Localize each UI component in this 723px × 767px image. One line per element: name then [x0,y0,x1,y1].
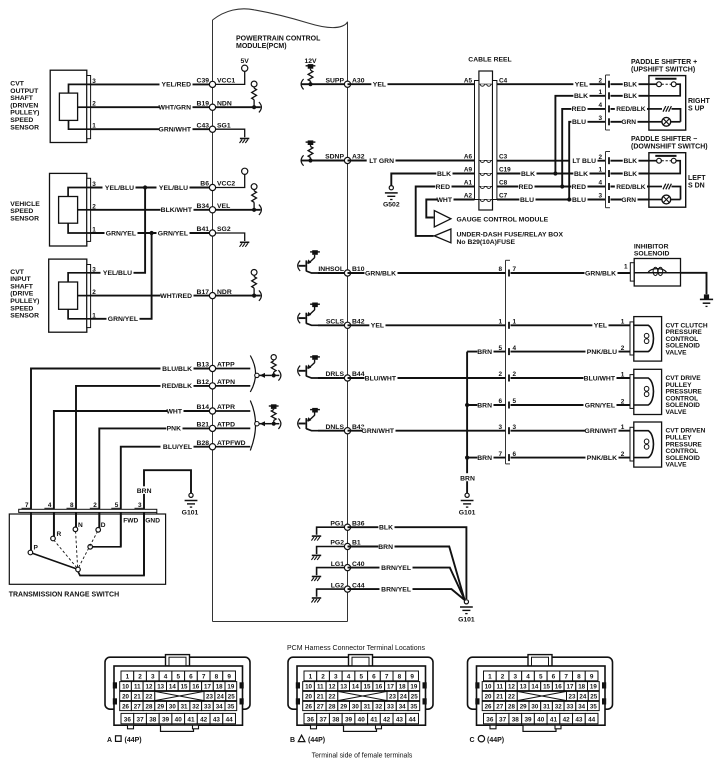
svg-text:18: 18 [216,684,223,691]
svg-text:B34: B34 [197,203,210,210]
wire switch pin8 to N contact [75,512,77,527]
pin B13/ATPP [197,362,236,372]
wire GRN/BLK B10 to connector pin8 [348,269,506,278]
label INHIBITOR SOLENOID [634,243,670,257]
pin numbers 2|2 inline connector [498,371,516,378]
svg-text:G101: G101 [458,617,475,624]
ground PG1 inside PCM [311,527,347,540]
svg-text:VALVE: VALVE [666,350,688,357]
svg-text:37: 37 [137,717,145,724]
svg-text:2: 2 [321,674,325,681]
svg-text:43: 43 [575,717,583,724]
svg-text:DNLS: DNLS [325,424,344,431]
svg-text:30: 30 [169,704,176,711]
wire GRN/YEL VSS pin1 to B41 [91,229,213,238]
ground for inhibitor solenoid [700,294,713,306]
svg-text:B: B [290,737,295,744]
pin numbers 3|3 inline connector [498,424,516,431]
wire RED cable reel C8 to downshift pin4 with branch to upshift pin4 [497,105,606,191]
svg-text:BLK: BLK [623,158,637,165]
svg-text:33: 33 [567,704,574,711]
svg-text:7: 7 [202,674,206,681]
labels FWD GND [123,518,160,525]
svg-text:DRLS: DRLS [325,371,344,378]
wire YEL/BLU bus VSS to input sensor pin3 [91,185,148,277]
svg-text:38: 38 [512,717,520,724]
svg-text:12: 12 [508,684,515,691]
svg-text:GRN: GRN [621,119,636,126]
svg-text:VALVE: VALVE [666,462,688,469]
svg-text:29: 29 [157,704,164,711]
svg-text:TRANSMISSION RANGE SWITCH: TRANSMISSION RANGE SWITCH [9,592,119,599]
svg-text:15: 15 [543,684,550,691]
pin numbers 1|1 inline connector [498,319,516,326]
dashed ray pivot to N [76,532,78,568]
svg-text:20: 20 [122,694,129,701]
driver transistor DNLS [298,408,348,431]
svg-text:PG1: PG1 [330,520,344,527]
svg-text:44: 44 [588,717,596,724]
svg-text:GRN/BLK: GRN/BLK [365,270,396,277]
svg-text:16: 16 [555,684,562,691]
sense node ATPP/ATPN with pull-up [255,355,281,381]
svg-text:BRN/YEL: BRN/YEL [381,586,411,593]
svg-text:LT BLU: LT BLU [572,158,596,165]
svg-text:RED/BLK: RED/BLK [162,383,192,390]
svg-text:RED: RED [572,106,586,113]
svg-text:3: 3 [598,193,602,200]
svg-text:VEHICLE: VEHICLE [10,201,40,208]
svg-text:YEL/RED: YEL/RED [162,82,192,89]
inhibitor solenoid [624,259,681,287]
svg-text:YEL: YEL [575,82,588,89]
svg-text:B6: B6 [200,181,209,188]
wire GND to rotor return [78,512,144,576]
svg-text:42: 42 [563,717,571,724]
svg-text:33: 33 [204,704,211,711]
svg-text:GRN/WHT: GRN/WHT [362,428,395,435]
svg-text:1: 1 [598,167,602,174]
svg-text:ATPFWD: ATPFWD [217,440,246,447]
svg-text:BRN: BRN [477,349,492,356]
svg-text:34: 34 [399,704,406,711]
5V supply terminal for VCC2 [213,168,248,187]
svg-text:4: 4 [526,674,530,681]
wire switch pin5 to FWD contact [92,512,120,547]
svg-text:37: 37 [499,717,507,724]
svg-text:11: 11 [134,684,141,691]
svg-text:SCLS: SCLS [326,319,345,326]
wire BLK/WHT VSS pin2 to B34 [91,206,213,215]
svg-text:BLU/WHT: BLU/WHT [584,375,616,382]
svg-text:B28: B28 [197,440,210,447]
svg-text:39: 39 [162,717,170,724]
wire PNK B21 to switch pin2 [99,424,212,530]
sense node ATPR/ATPD/ATPFWD with pull-up to battery [255,404,281,429]
sensor CVT input shaft speed sensor [49,259,97,332]
svg-text:27: 27 [496,704,503,711]
svg-text:RIGHT: RIGHT [688,98,711,105]
svg-text:BLK: BLK [574,93,588,100]
svg-text:43: 43 [213,717,221,724]
svg-text:YEL: YEL [371,323,384,330]
sensor CVT output shaft speed sensor [50,70,96,142]
svg-text:1: 1 [621,319,625,326]
ground SG1 [213,129,250,143]
label CVT INPUT SHAFT (DRIVE PULLEY) SPEED SENSOR [10,269,39,320]
contact D [96,522,106,532]
svg-text:39: 39 [345,717,353,724]
wire YEL connector to CVT clutch solenoid pin1 [511,321,631,330]
svg-text:VALVE: VALVE [666,409,688,416]
svg-text:22: 22 [146,694,153,701]
pin DRLS/B44 [325,371,364,381]
pivot contact [76,567,81,572]
svg-text:A1: A1 [464,180,473,187]
ground SG2 [213,233,250,247]
svg-text:B17: B17 [197,289,210,296]
wire BRN/YEL C40 to G101 [348,563,465,600]
wire YEL cable reel C4 to upshift pin2 [497,80,606,89]
ground LG1 inside PCM [311,568,347,581]
paddle shifter + (upshift switch) [598,59,710,130]
svg-text:25: 25 [228,694,235,701]
svg-text:CVT: CVT [10,269,24,276]
svg-text:PNK/BLK: PNK/BLK [587,455,617,462]
svg-text:10: 10 [305,684,312,691]
wire BLU cable reel C7 to downshift pin3 with branch to upshift pin3 [497,118,606,204]
svg-text:38: 38 [149,717,157,724]
svg-text:16: 16 [192,684,199,691]
label CVT drive pulley pressure control solenoid valve [666,375,703,416]
svg-text:OUTPUT: OUTPUT [10,88,39,95]
svg-text:19: 19 [227,684,234,691]
svg-text:19: 19 [590,684,597,691]
svg-text:2: 2 [138,674,142,681]
CVT clutch pressure control solenoid valve [621,317,662,362]
contact P [28,545,38,555]
svg-text:GRN/YEL: GRN/YEL [108,316,138,323]
svg-text:WHT/RED: WHT/RED [160,293,192,300]
wire GRN/WHT connector to CVT driven solenoid pin1 [511,427,631,436]
svg-text:R: R [57,531,62,538]
svg-text:YEL: YEL [594,323,607,330]
svg-text:29: 29 [520,704,527,711]
ground G101 at transmission range switch [182,493,199,516]
svg-text:ATPN: ATPN [217,379,235,386]
svg-text:33: 33 [387,704,394,711]
svg-text:UNDER-DASH FUSE/RELAY BOX: UNDER-DASH FUSE/RELAY BOX [457,231,564,238]
svg-text:WHT/GRN: WHT/GRN [159,105,192,112]
svg-text:25: 25 [590,694,597,701]
sensor vehicle speed sensor [50,173,97,246]
label VEHICLE SPEED SENSOR [10,201,40,223]
svg-text:B13: B13 [197,362,210,369]
svg-text:20: 20 [485,694,492,701]
svg-text:INHSOL: INHSOL [318,266,344,273]
svg-text:23: 23 [569,694,576,701]
svg-text:35: 35 [227,704,234,711]
svg-text:SPEED: SPEED [10,117,33,124]
svg-text:(DOWNSHIFT SWITCH): (DOWNSHIFT SWITCH) [631,144,708,151]
svg-text:21: 21 [134,694,141,701]
svg-text:34: 34 [578,704,585,711]
svg-text:SENSOR: SENSOR [10,215,39,222]
wire BLU/YEL B28 to switch pin5 [121,443,213,547]
svg-text:RED: RED [519,184,533,191]
PCM connector A (44P) terminal view [105,655,250,732]
svg-text:13: 13 [157,684,164,691]
svg-text:27: 27 [134,704,141,711]
wire LT GRN SDNP to cable reel A6 [348,156,475,165]
svg-text:9: 9 [590,674,594,681]
pin numbers 8|7 inline connector [498,266,516,273]
pull-up resistor on VEL [213,184,262,215]
svg-text:SHAFT: SHAFT [10,283,34,290]
ground G101 for BRN bus [459,493,476,516]
pin B17/NDR [197,289,232,299]
svg-text:23: 23 [206,694,213,701]
svg-text:8: 8 [398,674,402,681]
svg-text:ATPD: ATPD [217,422,235,429]
svg-text:36: 36 [124,717,132,724]
ground G502 [383,186,400,209]
svg-text:9: 9 [227,674,231,681]
svg-text:INPUT: INPUT [10,276,31,283]
svg-text:27: 27 [317,704,324,711]
contact FWD ring [88,545,93,550]
svg-text:1: 1 [309,674,313,681]
svg-text:24: 24 [217,694,224,701]
wire BLK B36 to G101 [348,523,467,599]
pin C39/VCC1 [197,78,236,88]
svg-text:1: 1 [621,424,625,431]
label CABLE REEL [468,57,511,64]
svg-text:44: 44 [409,717,417,724]
svg-text:C: C [470,737,475,744]
wire GRN/YEL connector to CVT drive solenoid pin2 [511,401,631,410]
svg-text:37: 37 [320,717,328,724]
svg-text:BLU: BLU [520,197,534,204]
svg-text:GAUGE CONTROL MODULE: GAUGE CONTROL MODULE [457,217,549,224]
svg-text:2: 2 [501,674,505,681]
wire stub ATPR [213,410,251,412]
svg-text:(44P): (44P) [125,737,142,744]
contact N [73,522,83,532]
svg-text:29: 29 [340,704,347,711]
wire BRN B1 to G101 [348,542,465,599]
wire BRN switch pin3 to G101 [137,470,191,575]
svg-text:11: 11 [317,684,324,691]
svg-text:A5: A5 [464,77,473,84]
12V pull-up on SUPP [301,58,347,90]
svg-text:41: 41 [187,717,195,724]
svg-text:PULLEY): PULLEY) [10,110,39,117]
svg-text:CVT: CVT [10,81,24,88]
wire RED cable reel A1 to under-dash fuse box [416,182,475,236]
svg-text:CABLE REEL: CABLE REEL [468,57,511,64]
paddle shifter - (downshift switch) [598,136,707,208]
wire BLU/WHT B44 to connector pin2 [348,374,506,383]
svg-text:26: 26 [485,704,492,711]
svg-text:RED/BLK: RED/BLK [616,106,646,113]
label CVT driven pulley pressure control solenoid valve [666,428,706,469]
svg-text:BLU/BLK: BLU/BLK [162,366,192,373]
svg-text:10: 10 [122,684,129,691]
label C (44P) [470,736,505,744]
svg-text:NDN: NDN [217,100,232,107]
wire BLK cable reel C19 to downshift pin1 with branch to upshift pin1 [497,92,606,178]
pin B14/ATPR [197,404,236,414]
svg-text:RED/BLK: RED/BLK [616,184,646,191]
PCM connector C (44P) terminal view [468,655,613,732]
pin C43/SG1 [197,122,231,132]
pin B19/NDN [197,100,232,110]
svg-text:SENSOR: SENSOR [10,124,39,131]
svg-text:1: 1 [598,89,602,96]
svg-text:YEL: YEL [373,82,386,89]
svg-text:44: 44 [226,717,234,724]
svg-text:WHT: WHT [167,408,183,415]
driver transistor SCLS [298,303,348,326]
svg-text:4: 4 [347,674,351,681]
range switch pin numbers [22,502,145,509]
svg-text:(UPSHIFT SWITCH): (UPSHIFT SWITCH) [631,67,695,74]
svg-text:ATPR: ATPR [217,404,235,411]
svg-text:BLU/YEL: BLU/YEL [163,444,192,451]
svg-text:28: 28 [146,704,153,711]
pull-up resistor on NDN [213,81,262,112]
svg-text:5: 5 [359,674,363,681]
svg-text:2: 2 [621,398,625,405]
svg-text:PADDLE SHIFTER −: PADDLE SHIFTER − [631,136,697,143]
PCM connector B (44P) terminal view [288,655,433,732]
svg-text:11: 11 [496,684,503,691]
pin numbers 5|4 inline connector [498,345,516,352]
svg-text:PADDLE SHIFTER +: PADDLE SHIFTER + [631,59,697,66]
svg-text:32: 32 [375,704,382,711]
svg-text:YEL/BLU: YEL/BLU [159,185,188,192]
svg-text:G101: G101 [182,510,199,517]
svg-text:BLU: BLU [572,197,586,204]
wire GRN/BLK connector to inhibitor solenoid [511,269,631,278]
svg-text:N: N [78,522,83,529]
svg-text:4: 4 [598,102,602,109]
PCM powertrain control module outline [213,9,348,622]
svg-text:6: 6 [372,674,376,681]
12V pull-up on SDNP [301,140,347,165]
svg-text:VCC2: VCC2 [217,181,235,188]
svg-text:16: 16 [375,684,382,691]
svg-text:G101: G101 [459,510,476,517]
svg-text:3: 3 [151,674,155,681]
svg-text:BRN: BRN [477,402,492,409]
svg-text:5: 5 [539,674,543,681]
label TRANSMISSION RANGE SWITCH [9,592,119,599]
svg-text:35: 35 [410,704,417,711]
svg-text:21: 21 [317,694,324,701]
svg-text:17: 17 [567,684,574,691]
svg-text:BRN: BRN [460,476,475,483]
wire GRN/WHT output sensor pin1 to C43 [91,125,213,134]
svg-text:2: 2 [598,77,602,84]
wire inhibitor solenoid to ground [681,273,707,294]
svg-text:22: 22 [329,694,336,701]
svg-text:SPEED: SPEED [10,208,33,215]
brace ATPR/ATPD/ATPFWD group [250,401,255,451]
svg-text:S DN: S DN [688,183,705,190]
svg-text:30: 30 [531,704,538,711]
wire stub ATPP [213,368,251,370]
svg-text:40: 40 [358,717,366,724]
svg-text:S UP: S UP [688,106,705,113]
svg-text:41: 41 [550,717,558,724]
svg-text:35: 35 [590,704,597,711]
wire BRN/YEL C44 to G101 [348,585,466,601]
svg-text:BLK: BLK [521,171,535,178]
svg-text:7: 7 [385,674,389,681]
svg-text:GRN/YEL: GRN/YEL [106,230,136,237]
svg-text:BLU/WHT: BLU/WHT [365,375,397,382]
svg-text:15: 15 [364,684,371,691]
svg-text:SENSOR: SENSOR [10,313,39,320]
transmission range switch box [9,514,165,584]
svg-text:GRN/YEL: GRN/YEL [158,230,188,237]
wire RED/BLK B12 to switch pin8 [76,382,213,530]
svg-text:(DRIVE: (DRIVE [10,291,34,298]
svg-text:43: 43 [396,717,404,724]
pin PG2/B1 [330,540,361,550]
svg-text:1: 1 [621,371,625,378]
svg-text:SPEED: SPEED [10,305,33,312]
svg-text:P: P [34,545,39,552]
svg-text:24: 24 [400,694,407,701]
svg-text:3: 3 [334,674,338,681]
pin SUPP/A30 [325,77,364,87]
pin B34/VEL [197,203,231,213]
inline connector C101 between PCM and solenoids [506,260,511,464]
svg-text:13: 13 [340,684,347,691]
range switch connector bar [19,509,157,514]
svg-text:23: 23 [389,694,396,701]
svg-text:28: 28 [329,704,336,711]
svg-text:26: 26 [305,704,312,711]
svg-text:(44P): (44P) [308,737,325,744]
ground PG2 inside PCM [311,547,347,560]
svg-text:36: 36 [486,717,494,724]
svg-text:34: 34 [216,704,223,711]
svg-text:C39: C39 [197,78,210,85]
ground G101 bottom right [458,600,475,624]
5V supply terminal for VCC1 [213,58,250,84]
svg-text:32: 32 [192,704,199,711]
svg-text:GRN: GRN [621,197,636,204]
svg-text:LG1: LG1 [331,561,344,568]
svg-text:14: 14 [352,684,359,691]
svg-text:BLK: BLK [437,171,451,178]
svg-text:SOLENOID: SOLENOID [634,250,670,257]
svg-text:4: 4 [164,674,168,681]
svg-text:8: 8 [577,674,581,681]
svg-text:40: 40 [537,717,545,724]
svg-text:BLK/WHT: BLK/WHT [161,207,193,214]
pin B6/VCC2 [200,181,235,191]
wire WHT B14 to switch pin4 [54,407,213,539]
svg-text:31: 31 [543,704,550,711]
svg-text:BLK: BLK [623,93,637,100]
cable reel [475,71,497,210]
svg-text:PG2: PG2 [330,540,344,547]
